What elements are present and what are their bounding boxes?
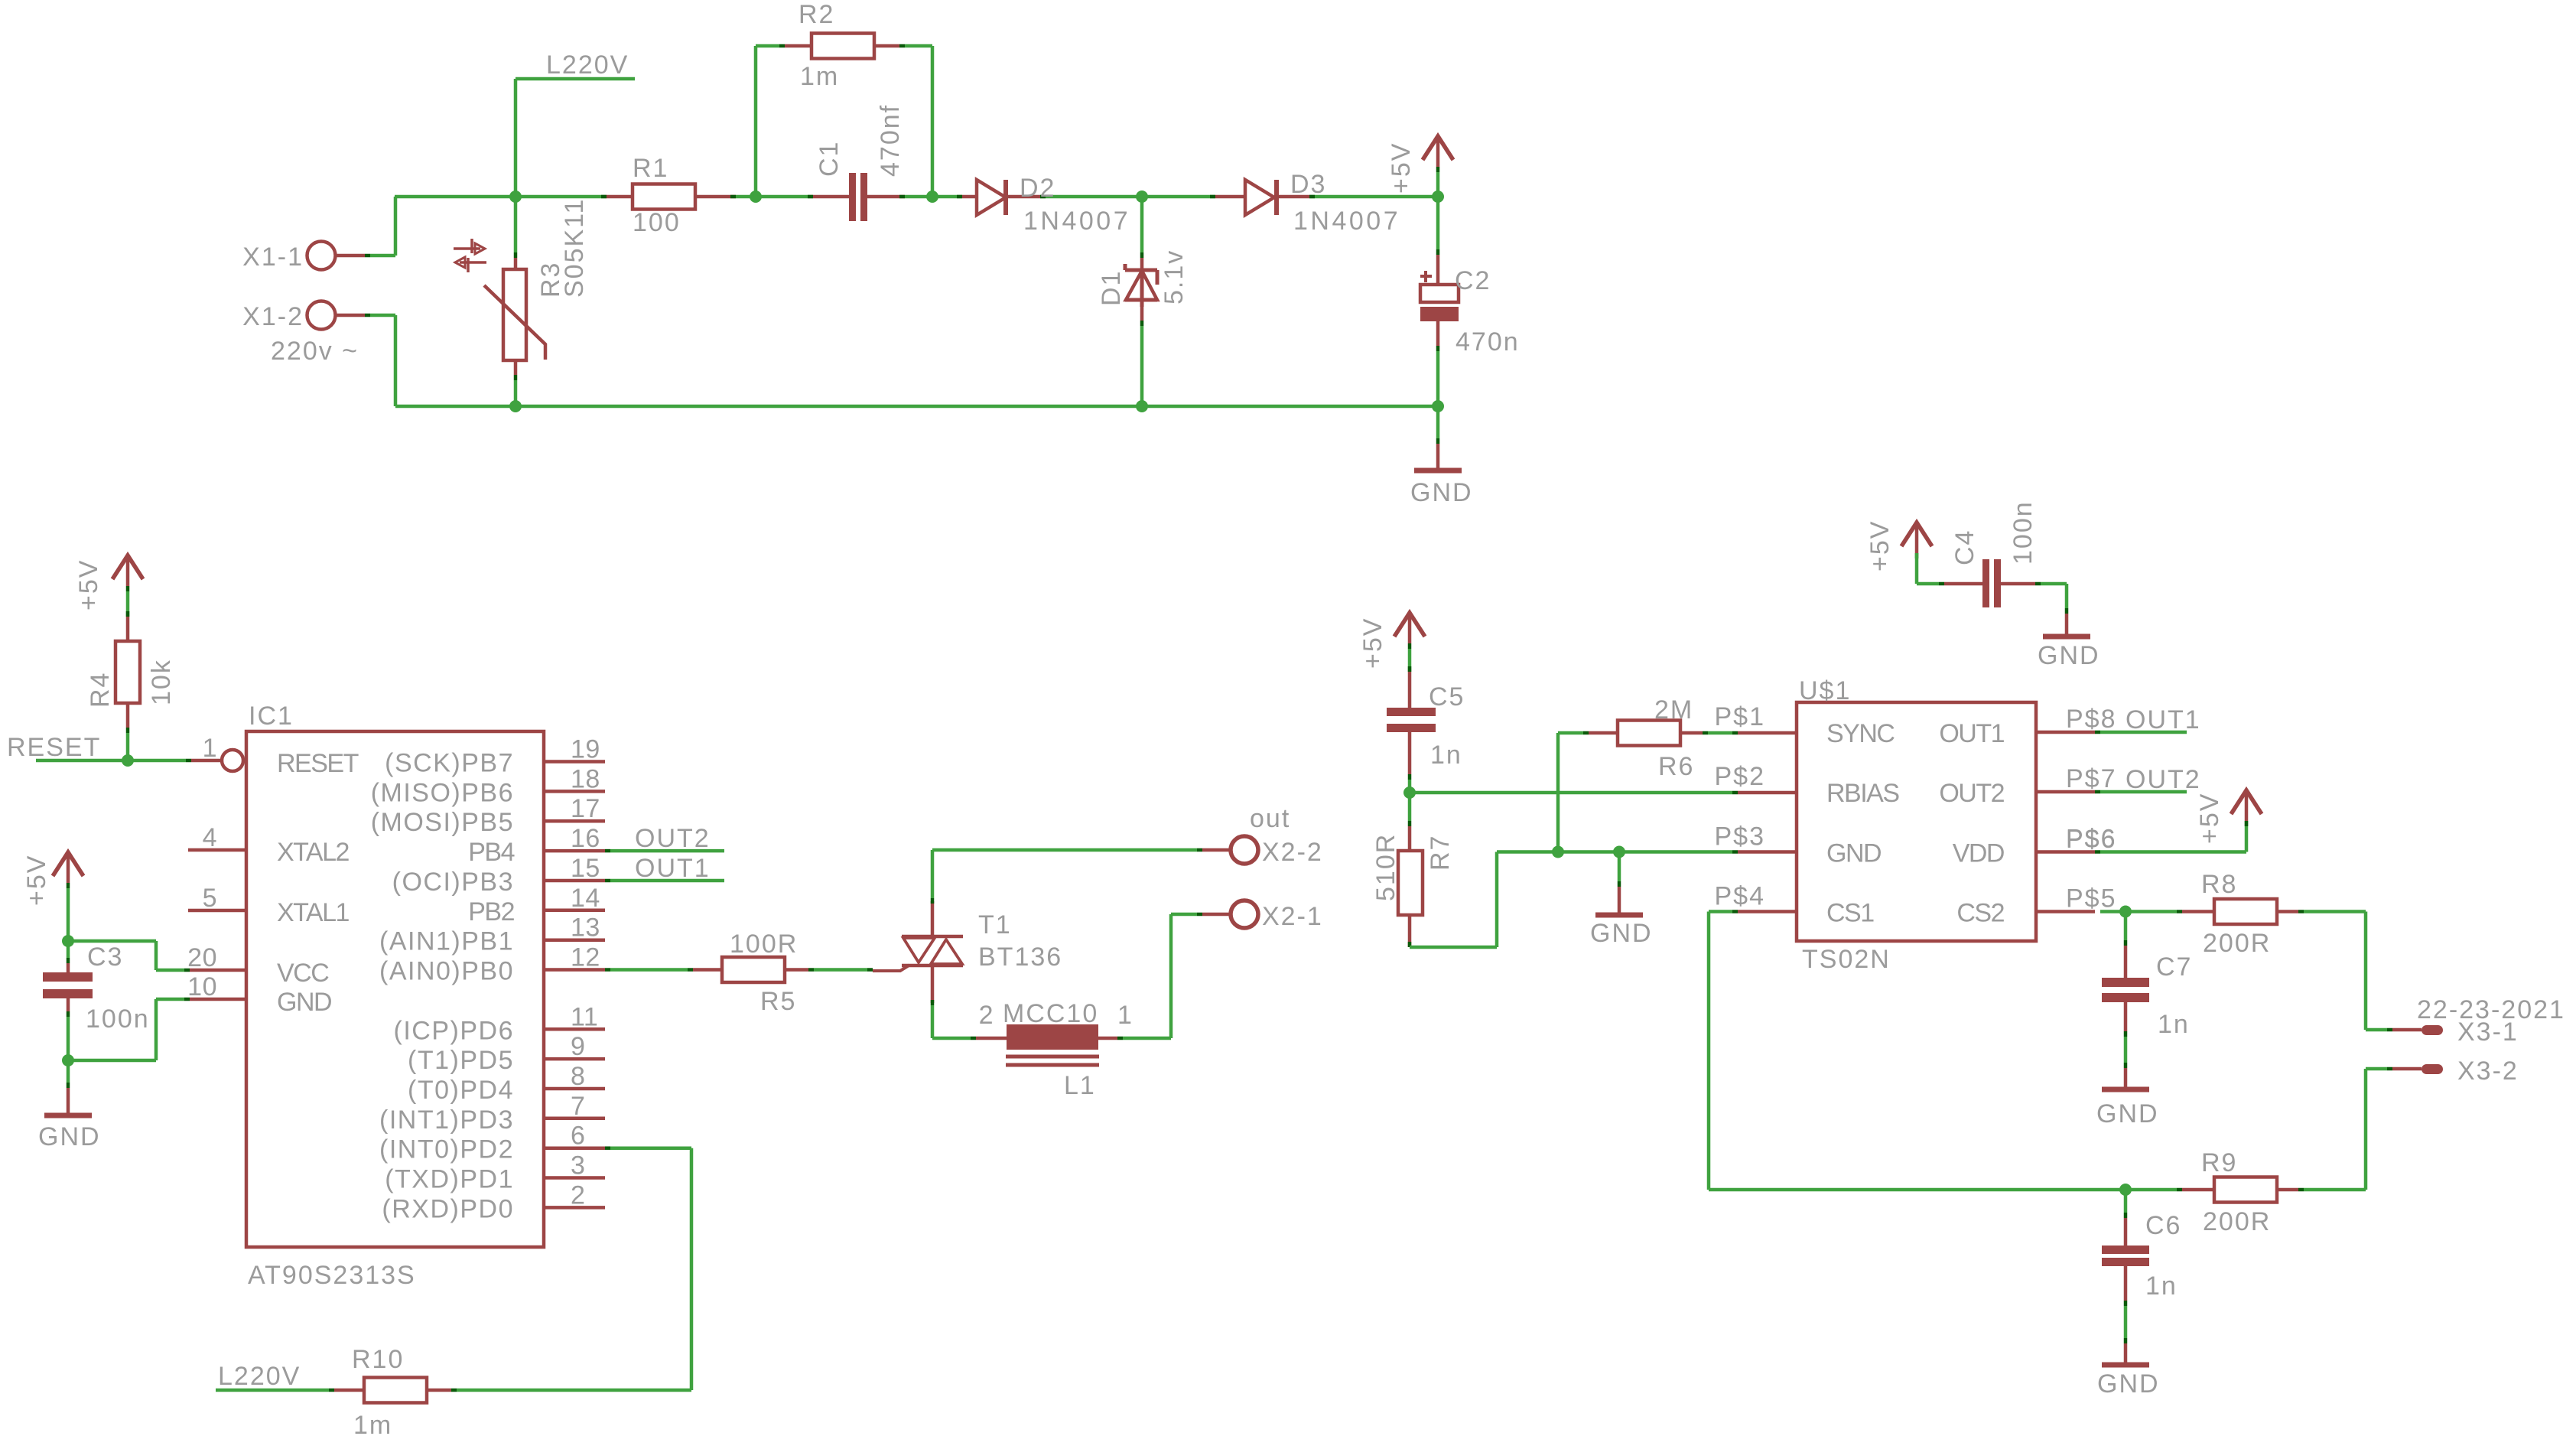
svg-text:T1: T1	[978, 910, 1012, 939]
svg-text:CS1: CS1	[1826, 899, 1874, 928]
svg-text:GND: GND	[1826, 839, 1881, 868]
svg-text:100n: 100n	[2008, 500, 2038, 565]
svg-text:1n: 1n	[1430, 741, 1462, 770]
svg-text:GND: GND	[2096, 1099, 2159, 1128]
svg-text:C7: C7	[2156, 952, 2192, 982]
svg-text:D1: D1	[1097, 270, 1126, 306]
svg-text:(AIN0)PB0: (AIN0)PB0	[379, 957, 514, 986]
svg-text:P$8: P$8	[2066, 705, 2117, 734]
svg-text:P$7: P$7	[2066, 764, 2117, 793]
svg-text:(OCI)PB3: (OCI)PB3	[392, 868, 514, 897]
svg-text:GND: GND	[1590, 919, 1653, 948]
svg-text:R6: R6	[1658, 752, 1694, 781]
svg-text:13: 13	[571, 913, 600, 943]
svg-text:OUT2: OUT2	[2126, 765, 2201, 794]
svg-text:100n: 100n	[86, 1005, 150, 1034]
svg-text:out: out	[1250, 804, 1290, 833]
svg-text:100R: 100R	[730, 930, 798, 959]
svg-text:+5V: +5V	[1865, 520, 1895, 571]
svg-text:(RXD)PD0: (RXD)PD0	[382, 1194, 514, 1223]
svg-text:X2-2: X2-2	[1262, 838, 1323, 867]
svg-text:C1: C1	[815, 141, 844, 177]
svg-text:1n: 1n	[2158, 1010, 2190, 1039]
svg-text:100: 100	[633, 208, 681, 237]
svg-text:R1: R1	[633, 154, 668, 183]
svg-text:1m: 1m	[353, 1411, 392, 1436]
svg-text:510R: 510R	[1371, 833, 1400, 901]
svg-text:1: 1	[1117, 1001, 1132, 1030]
svg-text:R4: R4	[86, 672, 115, 708]
svg-text:P$4: P$4	[1715, 882, 1766, 911]
svg-text:470n: 470n	[1456, 327, 1520, 357]
svg-text:12: 12	[571, 943, 600, 972]
svg-text:6: 6	[571, 1122, 585, 1151]
svg-text:C2: C2	[1455, 266, 1491, 295]
svg-text:PB2: PB2	[468, 897, 514, 926]
svg-text:OUT1: OUT1	[635, 854, 711, 883]
svg-text:GND: GND	[1410, 478, 1473, 507]
svg-text:3: 3	[571, 1151, 585, 1180]
svg-text:C5: C5	[1429, 682, 1465, 711]
svg-text:U$1: U$1	[1799, 676, 1851, 705]
svg-text:R9: R9	[2201, 1148, 2237, 1177]
svg-text:9: 9	[571, 1032, 585, 1061]
svg-text:2: 2	[979, 1001, 994, 1030]
svg-text:10k: 10k	[147, 659, 176, 705]
svg-text:R8: R8	[2201, 870, 2237, 899]
svg-text:GND: GND	[277, 988, 331, 1017]
svg-text:L220V: L220V	[218, 1362, 301, 1391]
svg-text:(AIN1)PB1: (AIN1)PB1	[379, 927, 514, 956]
svg-text:PB4: PB4	[468, 838, 514, 867]
svg-text:2M: 2M	[1654, 695, 1693, 725]
svg-text:P$1: P$1	[1715, 702, 1766, 731]
svg-text:P$5: P$5	[2066, 884, 2117, 913]
svg-text:5: 5	[203, 884, 217, 913]
svg-text:+5V: +5V	[1387, 142, 1416, 194]
svg-text:18: 18	[571, 764, 600, 793]
svg-text:(INT0)PD2: (INT0)PD2	[379, 1135, 514, 1164]
svg-text:4: 4	[203, 823, 217, 852]
svg-text:19: 19	[571, 735, 600, 764]
svg-text:R10: R10	[352, 1345, 404, 1374]
svg-text:X3-1: X3-1	[2457, 1018, 2519, 1047]
svg-text:XTAL2: XTAL2	[277, 838, 350, 867]
svg-text:(T0)PD4: (T0)PD4	[408, 1076, 514, 1105]
svg-text:1: 1	[203, 734, 217, 763]
svg-text:VDD: VDD	[1953, 839, 2004, 868]
svg-text:R7: R7	[1426, 835, 1455, 871]
svg-text:VCC: VCC	[277, 959, 329, 988]
svg-text:(TXD)PD1: (TXD)PD1	[385, 1165, 514, 1194]
svg-text:220v ~: 220v ~	[271, 337, 359, 366]
svg-text:17: 17	[571, 794, 600, 823]
svg-text:(INT1)PD3: (INT1)PD3	[379, 1105, 514, 1135]
svg-text:R2: R2	[798, 0, 834, 29]
svg-text:7: 7	[571, 1092, 585, 1121]
svg-text:L220V: L220V	[546, 50, 629, 80]
svg-text:C6: C6	[2145, 1211, 2181, 1240]
svg-text:GND: GND	[2038, 641, 2100, 670]
svg-text:5.1v: 5.1v	[1160, 249, 1189, 304]
svg-text:(ICP)PD6: (ICP)PD6	[394, 1016, 514, 1045]
svg-text:1m: 1m	[800, 62, 839, 91]
svg-text:P$2: P$2	[1715, 762, 1766, 791]
svg-text:(MOSI)PB5: (MOSI)PB5	[371, 808, 514, 837]
svg-text:BT136: BT136	[978, 943, 1062, 972]
svg-text:P$6: P$6	[2066, 825, 2117, 854]
svg-text:15: 15	[571, 854, 600, 883]
svg-text:OUT2: OUT2	[635, 824, 711, 853]
svg-text:(MISO)PB6: (MISO)PB6	[371, 778, 514, 807]
svg-text:14: 14	[571, 884, 600, 913]
svg-text:GND: GND	[2097, 1369, 2160, 1399]
svg-text:X2-1: X2-1	[1262, 902, 1323, 931]
svg-text:16: 16	[571, 824, 600, 853]
svg-text:+5V: +5V	[22, 855, 51, 906]
svg-text:D3: D3	[1290, 170, 1326, 199]
svg-text:SYNC: SYNC	[1826, 719, 1895, 748]
svg-text:L1: L1	[1064, 1071, 1096, 1100]
svg-text:1N4007: 1N4007	[1293, 207, 1400, 236]
svg-text:GND: GND	[38, 1122, 101, 1151]
svg-text:CS2: CS2	[1956, 899, 2004, 928]
svg-text:C4: C4	[1950, 529, 1979, 565]
svg-text:8: 8	[571, 1062, 585, 1091]
svg-text:AT90S2313S: AT90S2313S	[248, 1261, 416, 1290]
svg-text:OUT1: OUT1	[1939, 719, 2004, 748]
svg-text:+5V: +5V	[1358, 617, 1387, 669]
svg-text:+5V: +5V	[2195, 793, 2224, 844]
svg-text:MCC10: MCC10	[1003, 999, 1098, 1028]
svg-text:200R: 200R	[2203, 929, 2271, 958]
svg-text:470nf: 470nf	[876, 104, 905, 177]
svg-text:XTAL1: XTAL1	[277, 898, 350, 927]
svg-text:X1-1: X1-1	[242, 243, 304, 272]
svg-text:S05K11: S05K11	[560, 198, 589, 298]
svg-text:1N4007: 1N4007	[1023, 207, 1130, 236]
svg-text:1n: 1n	[2145, 1272, 2178, 1301]
svg-text:(T1)PD5: (T1)PD5	[408, 1046, 514, 1075]
svg-text:2: 2	[571, 1180, 585, 1210]
svg-text:TS02N: TS02N	[1802, 945, 1891, 974]
svg-text:X3-2: X3-2	[2457, 1057, 2519, 1086]
svg-text:+5V: +5V	[74, 559, 103, 611]
svg-text:D2: D2	[1020, 174, 1055, 203]
svg-text:OUT1: OUT1	[2126, 705, 2201, 734]
svg-text:RBIAS: RBIAS	[1826, 779, 1899, 808]
svg-text:P$3: P$3	[1715, 822, 1766, 852]
svg-text:10: 10	[187, 972, 217, 1001]
svg-text:RESET: RESET	[277, 749, 359, 778]
svg-text:RESET: RESET	[7, 733, 101, 762]
svg-text:(SCK)PB7: (SCK)PB7	[385, 749, 514, 778]
svg-text:X1-2: X1-2	[242, 302, 304, 331]
svg-text:OUT2: OUT2	[1939, 779, 2004, 808]
svg-text:R5: R5	[760, 987, 796, 1016]
svg-text:11: 11	[571, 1002, 598, 1031]
svg-text:C3: C3	[87, 943, 123, 972]
svg-text:20: 20	[187, 943, 217, 972]
svg-text:IC1: IC1	[249, 702, 294, 731]
svg-text:200R: 200R	[2203, 1207, 2271, 1236]
